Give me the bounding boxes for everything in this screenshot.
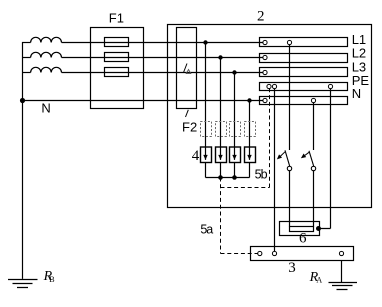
earthing bar 3	[251, 247, 354, 261]
RCD current sensor winding (dashed) phase L3	[230, 122, 241, 137]
busbar L3	[260, 68, 348, 77]
F2 symbol slash	[184, 64, 188, 73]
RCD current sensor winding (dashed) neutral	[245, 122, 256, 137]
release arrow pole 1	[203, 155, 207, 160]
switch S1 actuator link	[281, 152, 286, 156]
linkage 5b dashed: trip bus to PE terminal	[221, 89, 270, 188]
RCD current sensor winding (dashed) phase L2	[216, 122, 227, 137]
fuse F1.2	[105, 53, 129, 62]
svg-text:a: a	[206, 223, 213, 237]
overcurrent release 4 pole 2 box	[216, 147, 227, 163]
wire: L1 tap down through release to trip bus	[205, 43, 207, 178]
wire: star point to winding W1	[22, 42, 31, 44]
switch S2 actuator arrowhead	[301, 154, 306, 159]
junction: trip bus / release 2	[218, 175, 223, 180]
overcurrent release 4 pole 3 box	[230, 147, 241, 163]
release arrow pole 2	[218, 155, 222, 160]
wire N: star point to N busbar terminal	[22, 100, 263, 102]
winding W3 (phase L3 source coil)	[31, 67, 62, 72]
wire L2: winding W2 to busbar terminal	[62, 57, 263, 59]
junction: L2 branch tap	[218, 55, 222, 59]
fuse block F1 enclosure	[91, 28, 144, 109]
fuse F1.3	[105, 68, 129, 77]
svg-text:F1: F1	[109, 11, 124, 26]
switch-disconnector F2 body	[177, 28, 197, 109]
wire: N busbar terminal down to switch S2	[313, 103, 315, 150]
svg-text:b: b	[261, 167, 268, 181]
ground RB	[8, 280, 38, 288]
wire: L2 tap down through release to trip bus	[220, 58, 222, 178]
ground RA	[329, 283, 358, 290]
terminal: L1 busbar to switch S1	[287, 40, 291, 44]
switch S2 blade	[309, 151, 314, 166]
svg-text:F2: F2	[182, 119, 197, 134]
fuse F1.1	[105, 38, 129, 47]
F2 leader line	[186, 110, 189, 117]
svg-text:6: 6	[299, 231, 307, 247]
winding W2 (phase L2 source coil)	[31, 52, 62, 57]
terminal: earthing bar PE conductor	[272, 251, 276, 255]
wire L1: winding W1 to busbar terminal	[62, 42, 263, 44]
junction: trip bus / release 3	[232, 175, 237, 180]
wire: transformer star-point conductor down to earth electrode	[22, 42, 24, 279]
wire: trip bus	[206, 177, 250, 179]
release arrow pole 4	[247, 155, 251, 160]
winding W1 (phase L1 source coil)	[31, 37, 62, 42]
terminal: PE busbar to earthing bar	[272, 84, 276, 88]
svg-text:A: A	[316, 276, 322, 285]
linkage 5a dashed: trip bus to earthing bar 3	[221, 178, 258, 254]
wire L3: winding W3 to busbar terminal	[62, 72, 263, 74]
svg-text:N: N	[41, 101, 50, 116]
wire: L3 tap down through release to trip bus	[234, 73, 236, 178]
F2 symbol triangle	[186, 70, 191, 74]
svg-text:4: 4	[192, 148, 200, 164]
wire: switch S1 to load element	[289, 171, 291, 227]
busbar L2	[260, 54, 348, 63]
switch S1 actuator arrowhead	[277, 154, 282, 159]
wire: star point to winding W2	[22, 57, 31, 59]
junction: L3 branch tap	[232, 70, 236, 74]
junction: N branch tap	[247, 98, 251, 102]
release arrow pole 3	[232, 155, 236, 160]
terminal: L3 busbar left	[263, 70, 267, 74]
terminal: PE busbar to appliance case	[328, 84, 332, 88]
switch S1 blade	[285, 150, 290, 166]
svg-text:N: N	[352, 86, 361, 101]
terminal: PE busbar linkage 5b	[267, 84, 271, 88]
switch S2 contact	[311, 166, 315, 170]
busbar N	[260, 97, 348, 105]
terminal: earthing bar to earth electrode	[339, 251, 343, 255]
svg-text:B: B	[49, 275, 54, 284]
terminal: L2 busbar left	[263, 55, 267, 59]
wire: PE busbar right terminal down to appliance case	[319, 89, 331, 229]
appliance 6 heating element	[290, 227, 314, 232]
wire: PE busbar terminal down to earthing bar 3	[274, 89, 276, 252]
overcurrent release 4 pole 4 box	[245, 147, 256, 163]
wire: N tap down through release to trip bus	[249, 101, 251, 178]
wire: earthing bar to earth electrode RA	[341, 261, 343, 283]
junction: star point on N conductor	[20, 98, 25, 103]
terminal: N busbar to switch S2	[311, 98, 315, 102]
RCD current sensor winding (dashed) phase L1	[201, 122, 212, 137]
overcurrent release 4 pole 1 box	[201, 147, 212, 163]
busbar PE	[260, 83, 348, 91]
switch S1 contact	[287, 166, 291, 170]
svg-text:2: 2	[257, 9, 265, 25]
terminal: L1 busbar left	[263, 40, 267, 44]
wire: star point to winding W3	[22, 72, 31, 74]
terminal: N busbar left	[263, 98, 267, 102]
junction: L1 branch tap	[203, 40, 207, 44]
terminal: earthing bar linkage 5a	[258, 251, 262, 255]
svg-text:3: 3	[288, 260, 296, 276]
appliance 6 case	[280, 222, 320, 236]
wire: switch S2 to load element	[313, 171, 315, 227]
distribution board 2 enclosure	[168, 25, 372, 208]
switch S2 actuator link	[305, 152, 309, 155]
junction: PE conductor on appliance case	[316, 226, 321, 231]
busbar L1	[260, 38, 348, 47]
wire: L1 busbar terminal down to switch S1	[289, 45, 291, 150]
